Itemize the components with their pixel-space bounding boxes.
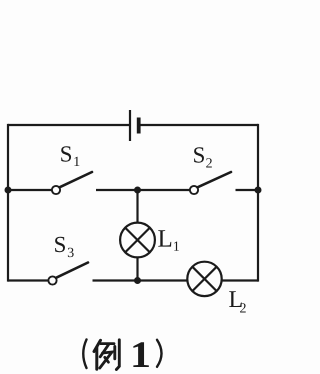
node B junction dot (row1 / L1 branch): [134, 187, 141, 194]
lamp L1 circle: [120, 223, 155, 258]
wire L1 branch top (node B down to L1): [136, 190, 138, 223]
switch S3 pivot circle: [48, 276, 56, 284]
wire L1 branch bottom (L1 down to node D): [136, 258, 138, 281]
wire row1 left (node A to S1): [8, 189, 52, 191]
battery BT1 long positive plate: [129, 110, 131, 141]
lamp L1 cross: [125, 228, 150, 253]
caption CJK char LI (example) drawn as strokes: [94, 340, 119, 370]
wire bottom left (left rail to S3): [8, 279, 48, 281]
switch S3 lever: [56, 263, 88, 278]
caption digit 1: [133, 342, 148, 367]
switch S1 lever: [60, 172, 93, 187]
wire top-left (battery + to left rail): [8, 124, 130, 126]
wire row1 middle (S1 to S2 through node B): [96, 189, 190, 191]
wire row1 right (S2 to node C): [236, 189, 259, 191]
caption open paren: [83, 340, 86, 369]
lamp L2 cross: [192, 267, 216, 291]
node D junction dot (bottom wire / L1 branch): [134, 277, 141, 284]
label S2: [194, 147, 204, 162]
label L2: [229, 291, 242, 307]
lamp L2 circle: [187, 262, 221, 296]
battery BT1 short negative plate: [137, 118, 141, 134]
wire bottom middle (S3 to L2 through node D): [93, 279, 187, 281]
label S1: [61, 146, 71, 161]
switch S2 pivot circle: [190, 186, 198, 194]
label L1: [158, 230, 171, 246]
caption close paren: [157, 340, 162, 367]
wire left rail: [7, 124, 9, 282]
wire right rail: [257, 124, 259, 282]
switch S2 lever: [198, 172, 232, 187]
label S3: [55, 237, 65, 252]
wire top-right (battery - to right rail): [139, 124, 258, 126]
wire bottom right (L2 to right rail): [222, 279, 258, 281]
node C junction dot (right rail / row1): [255, 187, 262, 194]
node A junction dot (left rail / row1): [5, 187, 12, 194]
switch S1 pivot circle: [52, 186, 60, 194]
